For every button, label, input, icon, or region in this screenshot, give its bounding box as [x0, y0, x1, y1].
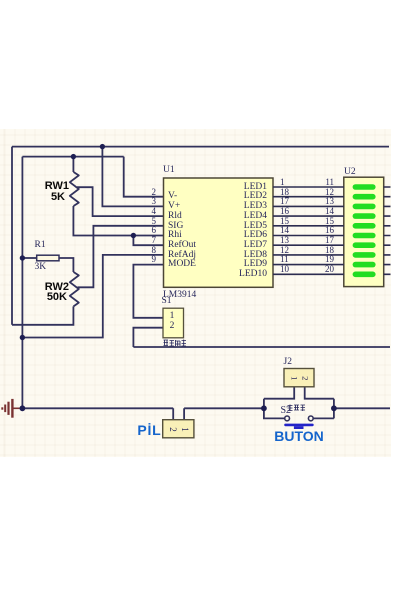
junction node at ground [20, 405, 26, 411]
value label 50K [27, 292, 67, 303]
LED segment bars of U2 [353, 184, 376, 190]
junction node left of button [261, 405, 267, 411]
potentiometer RW1 body [70, 172, 79, 206]
junction node at V+ tap [100, 144, 105, 149]
pin number J2 pin 2 rotated [301, 376, 310, 380]
wire: V+ pin 3 connection [102, 147, 163, 207]
push button S2 contacts [285, 416, 313, 421]
wire: SIG pin 5 to RW2 wiper [78, 226, 164, 287]
pin number S1 pin 1 [166, 312, 178, 322]
pin number PIL pin 2 rotated [168, 427, 177, 432]
wire: R1 right to RW2 top [59, 258, 73, 272]
junction node right of button [331, 405, 337, 411]
wire: R1 left terminal [22, 257, 36, 259]
wire: left button branch [264, 399, 285, 419]
value label 5K [25, 192, 65, 203]
pin names U1 left [168, 192, 177, 202]
wire: RW1 top terminal [72, 157, 74, 172]
pin names U1 right [217, 183, 267, 193]
value label 3K [35, 263, 47, 273]
potentiometer RW2 body [70, 272, 79, 306]
junction node at RefAdj/ground [20, 335, 25, 340]
wire: right rail from button [334, 407, 390, 409]
pin numbers U1 right [280, 178, 302, 187]
wire: right button branch [313, 399, 334, 419]
wire: MODE pin 9 to S1 pin 1 [133, 265, 163, 318]
wire: ground rail to battery [22, 407, 173, 409]
wire: upper branch to J2 pin 1 [264, 387, 294, 399]
junction node at R1 left [20, 255, 25, 260]
wire: S1 pin 2 down [133, 328, 163, 347]
pin number J2 pin 1 rotated [289, 376, 298, 380]
push button S2 actuator bar [284, 424, 314, 429]
wire: U1 to U2 LED lines [273, 187, 344, 274]
LED bargraph U2 body [344, 177, 384, 286]
chinese label display-switch [163, 339, 187, 347]
net label BUTON [268, 429, 330, 443]
value label LM3914 [163, 291, 196, 301]
resistor R1 body [37, 255, 59, 261]
wire: inner top rail [22, 156, 123, 158]
wire: battery to button node [184, 407, 264, 409]
pin number S1 pin 2 [166, 322, 178, 332]
junction node at RW1 top [71, 154, 76, 159]
wire: RW1 wiper to Rld pin 4 [77, 187, 164, 216]
designator J2 [284, 358, 292, 368]
wire: inner left vertical to ground [21, 157, 23, 409]
wire: RefOut pin 7 tap [133, 236, 163, 246]
wire: J2 pin 2 to upper branch [305, 387, 334, 399]
designator U2 [344, 168, 356, 178]
battery header PIL body [163, 420, 194, 438]
designator RW1 [29, 181, 69, 192]
pin numbers U1 left [134, 188, 156, 197]
wire: outer left vertical [11, 147, 13, 325]
wire: top rail [12, 146, 389, 148]
designator S2 [281, 406, 292, 416]
wire: outer bottom to RW2 [12, 306, 73, 324]
header S1 body [163, 308, 184, 338]
header J2 body [284, 369, 314, 387]
designator R1 [35, 241, 46, 251]
chinese label keyboard [287, 404, 306, 412]
wire: battery pin drops [173, 408, 184, 419]
junction node at Rhi/RefOut [131, 233, 136, 238]
wire: U2 right stubs [384, 187, 391, 274]
designator U1 [163, 166, 175, 176]
wire: RW1 bottom to Rhi pin 6 [73, 206, 163, 236]
IC U1 LM3914 body [164, 178, 274, 287]
designator S1 [162, 297, 172, 307]
wire: bottom long rail [133, 346, 390, 348]
wire: V- pin 2 connection [124, 157, 164, 197]
wire: RefAdj pin 8 to ground net [22, 255, 163, 338]
ground symbol [2, 399, 20, 418]
pin numbers U2 left [312, 178, 334, 187]
designator RW2 [29, 282, 69, 293]
schematic sheet grid background [0, 129, 391, 457]
net label PIL [122, 423, 162, 437]
pin number PIL pin 1 rotated [179, 427, 188, 432]
